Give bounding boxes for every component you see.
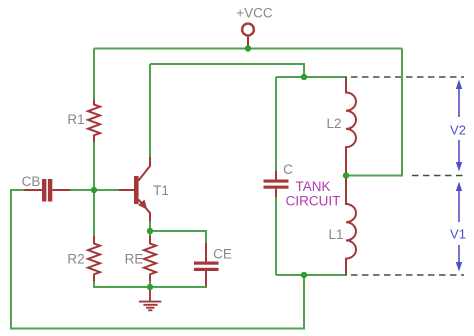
resistor R1 <box>88 100 100 143</box>
wire RE bottom to ground node <box>149 281 151 288</box>
capacitor C (tank) <box>264 171 289 197</box>
junction emitter node <box>147 228 153 234</box>
svg-text:V2: V2 <box>450 123 466 138</box>
svg-text:R1: R1 <box>67 112 84 127</box>
wire CE bottom to ground node <box>150 285 206 287</box>
+VCC terminal <box>242 24 254 47</box>
svg-text:L1: L1 <box>328 227 343 242</box>
svg-text:RE: RE <box>125 252 144 267</box>
wire R2 bottom <box>94 281 150 288</box>
wire feedback loop bottom-left <box>11 190 304 329</box>
svg-text:T1: T1 <box>153 183 169 198</box>
wire tank left upper (to capacitor C) <box>275 77 277 172</box>
wire collector vertical <box>149 64 151 158</box>
junction base node <box>91 187 97 193</box>
arrow V2 down <box>456 140 462 172</box>
capacitor CE <box>194 243 219 286</box>
dashed line top <box>351 76 464 78</box>
resistor RE <box>144 236 156 281</box>
svg-text:+VCC: +VCC <box>236 6 273 21</box>
wire CB right to base node <box>69 189 94 191</box>
dashed line bottom <box>351 274 464 276</box>
junction center tap node <box>343 172 349 178</box>
junction VCC node <box>245 45 251 51</box>
svg-text:CIRCUIT: CIRCUIT <box>286 194 341 209</box>
wire tank bottom <box>276 274 347 276</box>
wire emitter node to CE top <box>150 231 206 244</box>
ground <box>139 289 161 310</box>
wire base node to transistor base <box>94 189 120 191</box>
svg-text:C: C <box>283 162 293 177</box>
wire VCC to center tap (right vertical) <box>347 49 402 176</box>
junction tank bottom node <box>301 272 307 278</box>
arrow V2 up <box>456 80 462 118</box>
svg-text:V1: V1 <box>450 227 466 242</box>
wire emitter vertical <box>149 220 151 236</box>
svg-text:CE: CE <box>213 247 232 262</box>
svg-text:R2: R2 <box>67 252 84 267</box>
wire R1 branch vertical <box>93 49 95 101</box>
junction ground node <box>147 284 153 290</box>
wire VCC rail top <box>94 48 402 50</box>
junction tank top node <box>301 74 307 80</box>
svg-text:L2: L2 <box>326 116 341 131</box>
svg-text:TANK: TANK <box>295 179 330 194</box>
arrow V1 up <box>456 182 462 223</box>
inductor L2 <box>346 77 356 175</box>
wire collector rail <box>150 64 304 77</box>
inductor L1 <box>346 176 356 275</box>
capacitor CB <box>24 179 70 202</box>
transistor T1 <box>119 157 150 221</box>
dashed line middle <box>412 175 464 177</box>
resistor R2 <box>88 236 100 281</box>
arrow V1 down <box>456 245 462 272</box>
wire R1 bottom to base node <box>93 142 95 191</box>
svg-text:CB: CB <box>22 174 41 189</box>
wire tank top <box>276 76 347 78</box>
wire tank left lower <box>275 196 277 275</box>
wire base node down to R2 <box>93 190 95 236</box>
